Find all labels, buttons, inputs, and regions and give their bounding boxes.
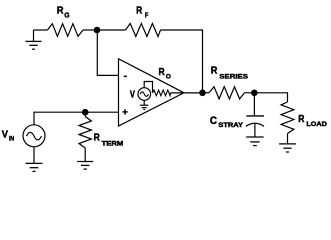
- resistor R_LOAD (vertical): [281, 102, 294, 134]
- svg-text:IN: IN: [9, 136, 15, 143]
- resistor R_TERM (vertical): [84, 116, 86, 117]
- ground GND6 (below R_LOAD): [287, 134, 289, 144]
- svg-text:R: R: [298, 114, 305, 125]
- node A (inverting summing junction): [94, 27, 101, 34]
- svg-text:R: R: [57, 5, 64, 16]
- op-amp inverting pin mark -: [124, 76, 127, 78]
- internal source V (output stage): [138, 88, 151, 101]
- resistor R_G: [48, 24, 84, 37]
- ground GND2 (below V_IN): [33, 147, 35, 163]
- resistor R_O (internal, small): [153, 90, 171, 96]
- svg-text:R: R: [159, 67, 166, 78]
- node B: [82, 109, 89, 116]
- svg-text:R: R: [94, 133, 101, 144]
- svg-text:V: V: [2, 129, 8, 140]
- wire V_IN to node B (non-inverting input): [34, 112, 85, 125]
- wire internal source to R_O (step): [144, 82, 152, 93]
- ground GND3 (below R_TERM): [84, 148, 86, 161]
- svg-text:LOAD: LOAD: [306, 121, 327, 128]
- resistor R_SERIES: [209, 87, 245, 99]
- resistor R_F: [126, 24, 161, 37]
- ground GND4 (internal source): [143, 100, 145, 105]
- svg-text:O: O: [166, 74, 171, 81]
- svg-text:R: R: [211, 66, 218, 77]
- svg-text:C: C: [210, 115, 217, 127]
- op-amp non-inverting pin mark +: [123, 109, 128, 114]
- svg-text:V: V: [130, 89, 135, 100]
- wire node B to non-inverting input: [85, 111, 118, 113]
- source V_IN (AC source): [23, 125, 45, 147]
- svg-text:G: G: [64, 12, 70, 19]
- wire R_SERIES to node D and to R_LOAD corner: [245, 93, 288, 102]
- ground GND5 (below C_STRAY): [254, 124, 256, 137]
- svg-text:R: R: [136, 6, 143, 17]
- svg-text:SERIES: SERIES: [219, 73, 248, 80]
- wire R_F to output node (feedback): [161, 30, 203, 93]
- node C (output node): [199, 90, 206, 97]
- wire node A to R_F: [97, 29, 126, 31]
- svg-text:TERM: TERM: [102, 140, 124, 147]
- wire node C to R_SERIES: [203, 92, 210, 94]
- svg-text:F: F: [145, 13, 149, 20]
- svg-text:STRAY: STRAY: [218, 122, 244, 129]
- ground GND1 (input side): [33, 30, 35, 41]
- wire from GND1 to R_G: [34, 29, 48, 31]
- op-amp U1 triangle: [119, 59, 185, 126]
- wire R_G to node A: [83, 29, 97, 31]
- capacitor C_STRAY: [246, 115, 264, 117]
- node D: [251, 90, 258, 97]
- capacitor C_STRAY lead: [253, 93, 255, 116]
- wire node A down to inverting input: [97, 33, 118, 75]
- wire R_O / op-amp output to node C: [171, 92, 203, 94]
